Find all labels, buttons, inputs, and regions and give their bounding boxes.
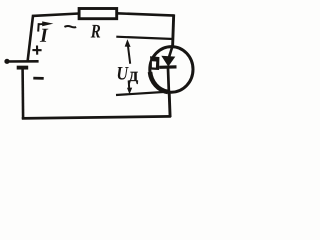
wire right vertical (top part, to diode circle) (173, 14, 174, 46)
wire inside circle: cathode to bottom (167, 68, 171, 93)
arrow down (to bottom tick) (127, 81, 132, 95)
wire top-left segment (33, 14, 80, 16)
wire bottom segment (22, 116, 171, 118)
battery GB1 positive plate (long) (5, 60, 39, 63)
wire right vertical (below circle) (168, 93, 172, 118)
battery GB1 negative plate (short thick) (17, 66, 29, 70)
wire top-right segment (117, 13, 175, 15)
wire inside circle: top stub to anode (169, 46, 173, 58)
label U_Д (diode voltage) (118, 67, 138, 84)
diode VD1 cathode bar (159, 65, 176, 69)
wire left vertical (top part, to battery) (28, 15, 33, 61)
ink smudge inside circle (left) (150, 56, 159, 70)
label I (current) (40, 29, 49, 42)
label + (battery polarity) (32, 46, 41, 55)
arrow up (to top tick) (125, 39, 131, 64)
diode VD1 triangle (anode, pointing down) (161, 56, 175, 67)
blob at left end of positive plate (4, 59, 9, 64)
diode VD1 envelope circle (150, 47, 193, 93)
resistor R1 (box) (79, 9, 117, 19)
tilde mark left of R (64, 26, 76, 27)
label - (battery polarity) (33, 77, 43, 80)
node tick top (voltage measurement) (116, 37, 173, 39)
node tick bottom (voltage measurement) (116, 92, 169, 95)
wire left vertical (below battery) (21, 69, 24, 119)
current arrow I (bracket + arrow to the right) (38, 21, 53, 31)
label R (resistor) (91, 25, 100, 38)
